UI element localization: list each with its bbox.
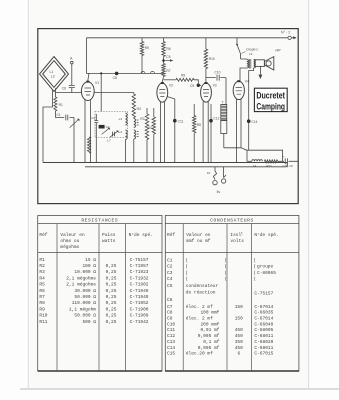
- svg-text:R1: R1: [59, 103, 63, 107]
- svg-text:C10: C10: [167, 321, 175, 327]
- svg-text:C15: C15: [167, 351, 175, 357]
- svg-text:C-66035: C-66035: [254, 310, 273, 316]
- cathode resistor of V1: [87, 137, 90, 153]
- svg-text:Puiss: Puiss: [102, 232, 116, 238]
- svg-text:R8: R8: [39, 300, 45, 306]
- svg-text:Ducretet: Ducretet: [256, 90, 285, 101]
- svg-text:Réf: Réf: [39, 232, 47, 238]
- capacitor C4: [95, 114, 99, 128]
- svg-text:(: (: [224, 276, 227, 282]
- svg-text:R1: R1: [39, 257, 45, 263]
- svg-text:élec.20 mf: élec.20 mf: [186, 351, 213, 357]
- svg-text:(: (: [253, 270, 256, 276]
- node C8 (junction dot): [115, 72, 119, 76]
- svg-text:C-71942: C-71942: [130, 319, 149, 325]
- svg-text:C3: C3: [167, 270, 173, 276]
- coil L3 (vertical, in block): [125, 113, 127, 125]
- svg-text:R7: R7: [39, 294, 45, 300]
- svg-text:L7: L7: [107, 139, 111, 143]
- svg-text:R5: R5: [181, 74, 185, 78]
- resistor R11: [264, 160, 277, 163]
- svg-text:C7: C7: [167, 304, 173, 310]
- svg-text:2,1 mégohms: 2,1 mégohms: [66, 282, 96, 288]
- resistor R10 (from B+ bus): [205, 38, 207, 49]
- svg-text:15 Ω: 15 Ω: [85, 257, 96, 263]
- capacitor C6: [69, 86, 75, 93]
- svg-text:condensateur: condensateur: [186, 283, 219, 289]
- svg-text:CONDENSATEURS: CONDENSATEURS: [210, 218, 254, 224]
- wire V2 legs: [161, 102, 165, 163]
- svg-text:(: (: [253, 276, 256, 282]
- capacitor C12 (node dot): [210, 104, 212, 163]
- svg-text:C5: C5: [167, 283, 173, 289]
- svg-text:C4: C4: [167, 276, 173, 282]
- antenna jack plug on top bus (right): [288, 36, 297, 39]
- wire primary/secondary connections: [240, 59, 254, 150]
- svg-text:t: t: [241, 232, 243, 236]
- svg-text:0,01 mf: 0,01 mf: [200, 327, 219, 333]
- svg-text:C-75157: C-75157: [130, 257, 149, 263]
- svg-text:0,005 mf: 0,005 mf: [198, 333, 220, 339]
- scanned page left edge: [27, 0, 29, 389]
- left table column headers: [39, 232, 153, 250]
- svg-text:0,25: 0,25: [106, 306, 117, 312]
- svg-text:(: (: [185, 264, 188, 270]
- wire antenna lead: [71, 64, 73, 85]
- svg-text:12: 12: [249, 52, 253, 56]
- svg-text:élec. 2 mf: élec. 2 mf: [186, 316, 213, 322]
- svg-text:6: 6: [237, 351, 240, 357]
- svg-text:0,25: 0,25: [106, 319, 117, 325]
- loop antenna cadre L1/L2 (diamond): [40, 57, 69, 92]
- wire V1 cathode legs to bus: [85, 100, 91, 163]
- svg-text:C-71932: C-71932: [130, 275, 149, 281]
- svg-text:groupe: groupe: [257, 264, 274, 270]
- svg-text:(: (: [185, 257, 188, 263]
- svg-text:R9: R9: [39, 306, 45, 312]
- svg-text:C-71923: C-71923: [130, 269, 149, 275]
- svg-text:0,25: 0,25: [106, 269, 117, 275]
- svg-text:C-75157: C-75157: [254, 291, 273, 297]
- svg-text:1,1 mégohm: 1,1 mégohm: [69, 306, 96, 312]
- svg-text:(: (: [253, 257, 256, 263]
- svg-text:Réf: Réf: [167, 232, 175, 238]
- wire top B+ bus: [87, 37, 288, 39]
- resistor R8: [193, 104, 195, 116]
- svg-text:150: 150: [235, 316, 243, 322]
- right table rows C1-C15: [167, 257, 276, 356]
- svg-text:R4: R4: [39, 275, 45, 281]
- table grid lines: [38, 224, 299, 371]
- svg-text:2,1 mégohms: 2,1 mégohms: [66, 275, 96, 281]
- svg-text:N° - 2: N° - 2: [281, 30, 290, 34]
- battery plug +HT (10): [213, 167, 216, 180]
- variable capacitor C3: [113, 132, 115, 137]
- svg-text:R6: R6: [39, 288, 45, 294]
- capacitor C11 (node dot): [173, 119, 177, 123]
- svg-text:Camping: Camping: [256, 100, 285, 111]
- coil L5 with core (below R4): [134, 119, 136, 128]
- svg-text:450: 450: [235, 333, 243, 339]
- svg-text:C2: C2: [167, 264, 173, 270]
- tube V1: [81, 81, 94, 101]
- svg-text:C-68020: C-68020: [254, 339, 273, 345]
- left table rows R1-R11: [39, 257, 148, 325]
- scanned page bottom edge: [20, 388, 339, 390]
- svg-text:0,25: 0,25: [106, 282, 117, 288]
- svg-text:30.000 Ω: 30.000 Ω: [74, 288, 96, 294]
- svg-text:C8: C8: [167, 310, 173, 316]
- svg-text:C14: C14: [251, 120, 257, 124]
- svg-text:élec. 2 mf: élec. 2 mf: [186, 304, 213, 310]
- svg-text:C-71900: C-71900: [130, 306, 149, 312]
- scanned page right edge: [308, 0, 310, 389]
- svg-text:T: T: [222, 101, 224, 105]
- wire R4 top tap: [94, 92, 134, 94]
- parts table outer boxes: [38, 216, 299, 372]
- wire T secondary down: [223, 134, 225, 148]
- svg-text:R3: R3: [140, 117, 144, 121]
- svg-text:C11: C11: [167, 327, 175, 333]
- svg-text:RESISTANCES: RESISTANCES: [81, 218, 118, 224]
- node C9: [197, 84, 200, 87]
- resistor R6 (from B+ bus): [163, 38, 165, 42]
- svg-text:0,25: 0,25: [106, 313, 117, 319]
- switch coupe-circuit (12): [237, 38, 241, 59]
- output transformer: [247, 60, 249, 68]
- wire lower right row: [224, 148, 283, 157]
- svg-text:C-67014: C-67014: [254, 304, 273, 310]
- svg-text:Valeur en: Valeur en: [60, 232, 85, 238]
- resistor R3: [146, 108, 148, 114]
- resistor R1: [54, 97, 57, 111]
- variable capacitor arrow C2: [102, 128, 109, 134]
- svg-text:C-71949: C-71949: [130, 288, 149, 294]
- svg-text:N°de spé.: N°de spé.: [254, 232, 278, 238]
- svg-text:V2: V2: [169, 83, 173, 87]
- svg-text:C9: C9: [167, 316, 173, 322]
- capacitor C15 (electrolytic): [278, 158, 298, 164]
- svg-text:C-66040: C-66040: [254, 321, 273, 327]
- svg-text:N°de spé.: N°de spé.: [129, 232, 153, 238]
- capacitor C1 (series bars): [55, 115, 74, 121]
- svg-text:100 mmf: 100 mmf: [200, 310, 219, 316]
- svg-text:mmf ou mf: mmf ou mf: [186, 238, 211, 244]
- svg-text:L2: L2: [51, 75, 55, 79]
- svg-text:10.000 Ω: 10.000 Ω: [74, 269, 96, 275]
- wire loop antenna tails: [43, 90, 53, 163]
- wire down to oscillator block: [100, 73, 102, 111]
- speaker frame arrow down: [259, 66, 261, 74]
- choke L5: [247, 160, 252, 162]
- svg-text:C9: C9: [190, 84, 194, 88]
- svg-text:C4: C4: [91, 116, 95, 120]
- svg-text:de réaction: de réaction: [186, 289, 216, 295]
- resistor R4: [133, 93, 135, 95]
- svg-text:C1: C1: [57, 113, 61, 117]
- svg-text:HP: HP: [275, 48, 281, 52]
- svg-text:L3: L3: [119, 117, 123, 121]
- wire ground bus (lower): [85, 163, 287, 167]
- svg-text:C-68005: C-68005: [254, 327, 273, 333]
- svg-text:C-71909: C-71909: [130, 313, 149, 319]
- svg-text:C6: C6: [62, 87, 66, 91]
- svg-text:R11: R11: [39, 319, 47, 325]
- svg-text:watts: watts: [102, 238, 116, 244]
- svg-text:R2: R2: [148, 126, 152, 130]
- svg-text:(: (: [224, 257, 227, 263]
- svg-text:350: 350: [235, 339, 243, 345]
- svg-text:0,25: 0,25: [106, 288, 117, 294]
- wire ground bus (upper): [43, 162, 287, 164]
- node C5 tap: [162, 59, 165, 62]
- wire V2 grid branch: [164, 79, 177, 81]
- loudspeaker HP: [255, 60, 265, 67]
- svg-text:0,25: 0,25: [106, 275, 117, 281]
- resistor R2: [153, 108, 155, 117]
- right table column headers: [167, 232, 279, 244]
- wire oscillator outputs to bus: [96, 128, 125, 163]
- svg-text:(: (: [185, 270, 188, 276]
- svg-text:150: 150: [235, 304, 243, 310]
- svg-text:450: 450: [235, 327, 243, 333]
- wire screen bypass branch: [167, 97, 175, 163]
- svg-text:L4: L4: [119, 130, 123, 134]
- svg-text:C-68011: C-68011: [254, 345, 273, 351]
- svg-text:C11: C11: [178, 119, 184, 123]
- capacitor C5 arrow (reaction): [165, 60, 171, 62]
- svg-text:0,25: 0,25: [106, 300, 117, 306]
- Ducretet Camping badge: [254, 88, 287, 111]
- svg-text:Valeur en: Valeur en: [186, 232, 211, 238]
- wire antenna row to V1 grid: [55, 92, 81, 94]
- table bottom heavy rule: [38, 370, 299, 372]
- wire V4 legs: [237, 99, 242, 162]
- svg-text:(: (: [253, 264, 256, 270]
- resistor R7: [162, 64, 165, 77]
- svg-text:volts: volts: [230, 238, 244, 244]
- svg-text:500 Ω: 500 Ω: [82, 319, 96, 325]
- svg-text:Isol: Isol: [230, 232, 241, 238]
- wire chain taps: [247, 150, 283, 161]
- svg-text:450: 450: [235, 345, 243, 351]
- wire C1 branch down to bus: [73, 118, 75, 163]
- tube V3: [201, 82, 212, 102]
- oscillator block (dashed outline): [95, 112, 128, 138]
- svg-text:R5: R5: [39, 282, 45, 288]
- svg-text:V1: V1: [95, 81, 99, 85]
- svg-text:Coupe-c.: Coupe-c.: [246, 48, 259, 52]
- svg-text:C-71957: C-71957: [130, 263, 149, 269]
- svg-text:C1: C1: [167, 257, 173, 263]
- svg-text:110.000 Ω: 110.000 Ω: [72, 300, 97, 306]
- capacitor C10 (series): [206, 75, 226, 81]
- svg-text:R10: R10: [209, 57, 215, 61]
- svg-text:(: (: [185, 276, 188, 282]
- svg-text:0,005 mf: 0,005 mf: [198, 345, 220, 351]
- svg-text:R3: R3: [39, 269, 45, 275]
- svg-text:(: (: [224, 264, 227, 270]
- svg-text:C14: C14: [167, 345, 175, 351]
- svg-text:C-71902: C-71902: [130, 282, 149, 288]
- svg-text:mégohms: mégohms: [60, 244, 79, 250]
- svg-text:0,25: 0,25: [106, 294, 117, 300]
- wire V1 grid cap to C8 bus: [88, 73, 89, 80]
- svg-text:R7: R7: [166, 69, 170, 73]
- trimmer capacitor C2: [99, 125, 105, 129]
- resistor R9 (from B+ bus): [141, 38, 143, 42]
- resistor R5 (horizontal): [176, 78, 194, 81]
- transformer T: [225, 78, 227, 105]
- svg-text:ohms ou: ohms ou: [60, 238, 79, 244]
- svg-text:C-67014: C-67014: [254, 316, 273, 322]
- wire R5 to V3 grid: [194, 80, 201, 86]
- svg-text:R10: R10: [39, 313, 47, 319]
- svg-text:R8: R8: [197, 123, 201, 127]
- svg-text:+: +: [283, 154, 285, 158]
- wire V3 legs: [203, 102, 208, 163]
- svg-text:C-67015: C-67015: [254, 351, 273, 357]
- svg-text:C10: C10: [214, 70, 220, 74]
- svg-text:C12: C12: [213, 116, 219, 120]
- svg-text:(: (: [224, 270, 227, 276]
- svg-text:C6: C6: [167, 297, 173, 303]
- svg-text:50.000 Ω: 50.000 Ω: [74, 294, 96, 300]
- variable capacitor arrow C1: [70, 119, 79, 127]
- wire grid coupling row: [89, 72, 164, 74]
- svg-text:L1: L1: [50, 70, 54, 74]
- svg-text:6v: 6v: [217, 190, 221, 194]
- svg-text:C5: C5: [166, 55, 170, 59]
- svg-text:V4: V4: [245, 80, 249, 84]
- svg-text:10: 10: [207, 171, 211, 175]
- wire B+ drop to V1 plate row: [87, 38, 90, 74]
- svg-text:V3: V3: [213, 83, 217, 87]
- svg-text:C-68011: C-68011: [254, 333, 273, 339]
- tube V4: [233, 80, 244, 99]
- svg-text:C-80065: C-80065: [257, 270, 276, 276]
- capacitor C14 (node dot): [247, 119, 251, 123]
- svg-text:C13: C13: [167, 339, 175, 345]
- battery plug -HT (11): [224, 167, 226, 178]
- svg-text:C-71952: C-71952: [130, 300, 149, 306]
- tube V2: [157, 82, 168, 102]
- svg-text:R9: R9: [145, 46, 149, 50]
- svg-text:C12: C12: [167, 333, 175, 339]
- node feed to oscillator box: [100, 72, 102, 74]
- svg-text:R2: R2: [39, 263, 45, 269]
- svg-text:50.000 Ω: 50.000 Ω: [74, 313, 96, 319]
- svg-text:C-71949: C-71949: [130, 294, 149, 300]
- wire hop marks on grid row: [141, 71, 155, 73]
- svg-text:0,25: 0,25: [106, 263, 117, 269]
- svg-text:100 Ω: 100 Ω: [82, 263, 96, 269]
- coil L4 (vertical, in block): [125, 130, 127, 140]
- svg-text:200 mmf: 200 mmf: [200, 321, 219, 327]
- svg-text:R4: R4: [137, 107, 141, 111]
- svg-text:0,1 mf: 0,1 mf: [203, 339, 220, 345]
- svg-text:C8: C8: [113, 76, 117, 80]
- svg-text:R6: R6: [166, 47, 170, 51]
- schematic border frame: [38, 29, 298, 204]
